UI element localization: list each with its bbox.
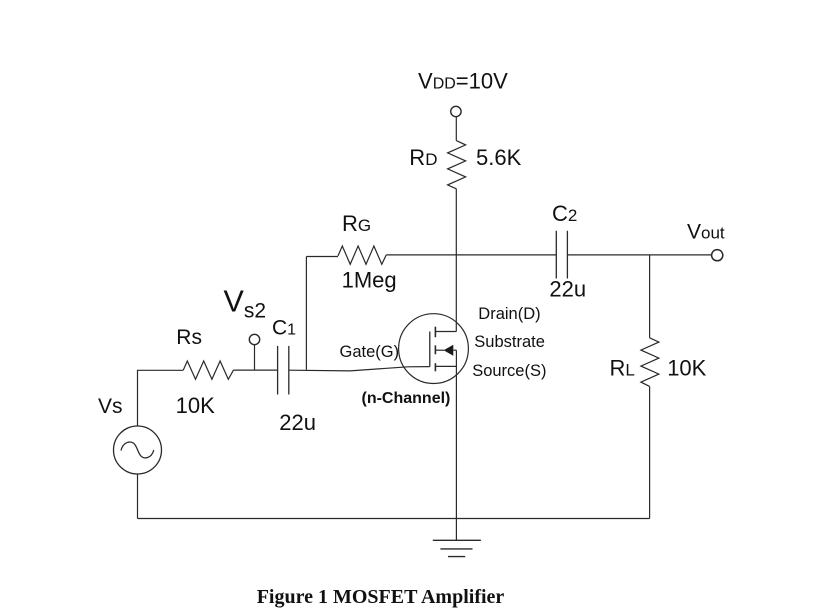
wire Vs top: [138, 370, 184, 426]
svg-text:Substrate: Substrate: [474, 333, 545, 351]
svg-text:5.6K: 5.6K: [476, 145, 522, 170]
svg-text:VDD=10V: VDD=10V: [418, 68, 508, 93]
wire substrate/source down to ground: [455, 350, 457, 540]
transistor Q1 source tap: [435, 365, 456, 367]
node VDD label: [418, 68, 508, 93]
svg-text:22u: 22u: [549, 277, 586, 302]
node Vs2 terminal: [249, 334, 259, 370]
wire Rs to C1: [234, 369, 278, 371]
wire C2 to Vout terminal: [567, 254, 711, 256]
transistor Q1 channel dashes: [434, 327, 436, 372]
capacitor C2 symbol: [556, 231, 567, 279]
node VDD terminal: [451, 106, 461, 116]
resistor R_L symbol: [641, 338, 659, 387]
wire C1 to gate: [289, 367, 430, 371]
svg-text:Gate(G): Gate(G): [340, 343, 400, 361]
wire RD to drain: [455, 189, 457, 332]
transistor Q1 MOSFET body circle: [399, 314, 469, 384]
resistor R_G symbol: [338, 246, 386, 264]
svg-text:10K: 10K: [667, 356, 706, 381]
wire Vs bottom: [137, 474, 139, 519]
wire VDD to RD: [455, 117, 457, 141]
wire bottom ground bus: [138, 518, 650, 520]
svg-text:Source(S): Source(S): [472, 362, 546, 380]
svg-text:Rs: Rs: [176, 326, 202, 349]
node Vout terminal: [712, 250, 723, 261]
svg-text:1Meg: 1Meg: [342, 268, 397, 293]
wire RG branch horizontal: [306, 256, 338, 258]
resistor Rs symbol: [183, 361, 233, 379]
transistor Q1 gate bar: [429, 332, 431, 367]
wire RG output to C2 (horizontal bus): [386, 254, 556, 256]
svg-text:Figure 1 MOSFET Amplifier: Figure 1 MOSFET Amplifier: [257, 586, 505, 608]
svg-text:Vout: Vout: [687, 221, 725, 244]
wire RG branch vertical (gate node up): [305, 257, 307, 370]
wire RL to bottom bus: [649, 386, 651, 518]
svg-text:Vs: Vs: [98, 395, 123, 418]
svg-text:(n-Channel): (n-Channel): [362, 390, 451, 407]
transistor Q1 drain tap: [435, 331, 456, 333]
transistor Q1 substrate arrow: [435, 345, 456, 356]
capacitor C1 symbol: [278, 346, 289, 395]
wire Vout node to RL: [649, 255, 651, 338]
svg-text:22u: 22u: [279, 410, 316, 435]
resistor R_D symbol: [448, 141, 466, 189]
svg-text:10K: 10K: [176, 393, 215, 418]
ground symbol: [433, 540, 481, 556]
source Vs symbol (AC source): [114, 426, 162, 474]
svg-text:Drain(D): Drain(D): [478, 305, 540, 323]
